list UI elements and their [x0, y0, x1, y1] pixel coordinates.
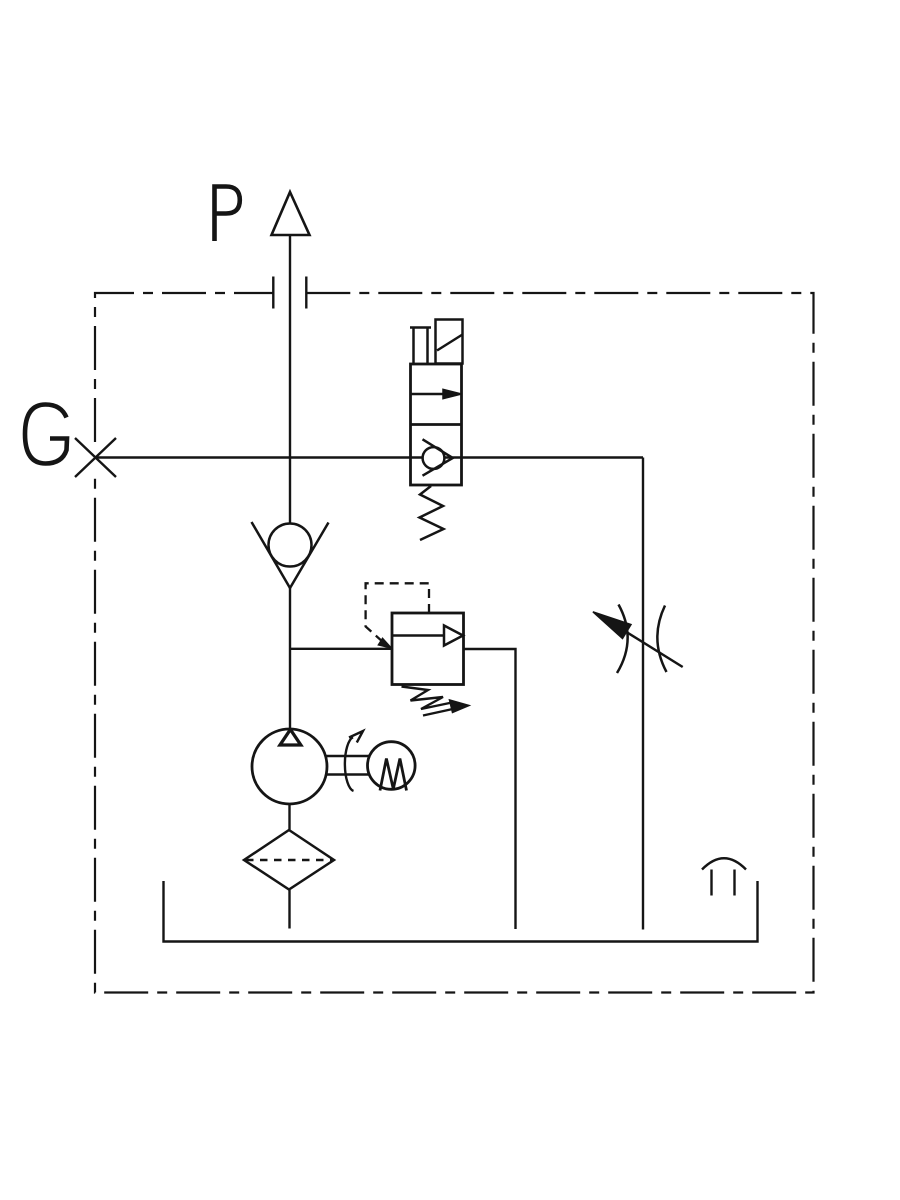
- motor M letter: [380, 759, 407, 791]
- tank T: [164, 881, 758, 942]
- wire: P line down from triangle to check valve: [289, 235, 291, 524]
- V1 connector pins: [410, 328, 431, 364]
- V1 solenoid: [436, 320, 463, 364]
- port label P: [215, 187, 240, 242]
- PU outlet triangle: [280, 730, 301, 746]
- rotation arrow arc: [345, 737, 354, 791]
- check valve CV (main): [269, 524, 312, 567]
- motor shaft: [325, 756, 369, 775]
- pump PU circle: [252, 729, 327, 804]
- breather B: [702, 858, 746, 869]
- RV spring (adjustable): [402, 687, 453, 710]
- port label G: [25, 405, 67, 464]
- V1 spring: [420, 486, 444, 540]
- relief valve RV body: [392, 613, 464, 685]
- wire: right branch down to tank: [642, 458, 644, 930]
- V1 top position arrow: [411, 393, 445, 395]
- throttle valve TH arcs: [617, 605, 628, 674]
- filter F diamond: [244, 830, 334, 890]
- RV internal arrow: [392, 634, 444, 636]
- V1 bottom position check valve: [423, 447, 445, 469]
- wire: filter to tank: [288, 890, 290, 929]
- TH adjustment arrow: [624, 631, 683, 668]
- wire: relief valve outlet to tank: [464, 649, 516, 929]
- wire: branch to relief valve: [290, 648, 392, 650]
- motor M circle: [368, 742, 416, 790]
- bulkhead ticks at P crossing: [273, 277, 306, 309]
- enclosure dash-dot border: [95, 293, 814, 993]
- wire: below check valve to pump: [289, 588, 291, 729]
- RV pilot dashed line: [366, 583, 429, 646]
- plugged port X at G: [75, 438, 116, 477]
- wire: pump to filter: [288, 804, 290, 830]
- wire: G line horizontal: [96, 456, 644, 458]
- port P arrow (triangle): [272, 192, 310, 235]
- solenoid valve V1 body: [411, 364, 462, 485]
